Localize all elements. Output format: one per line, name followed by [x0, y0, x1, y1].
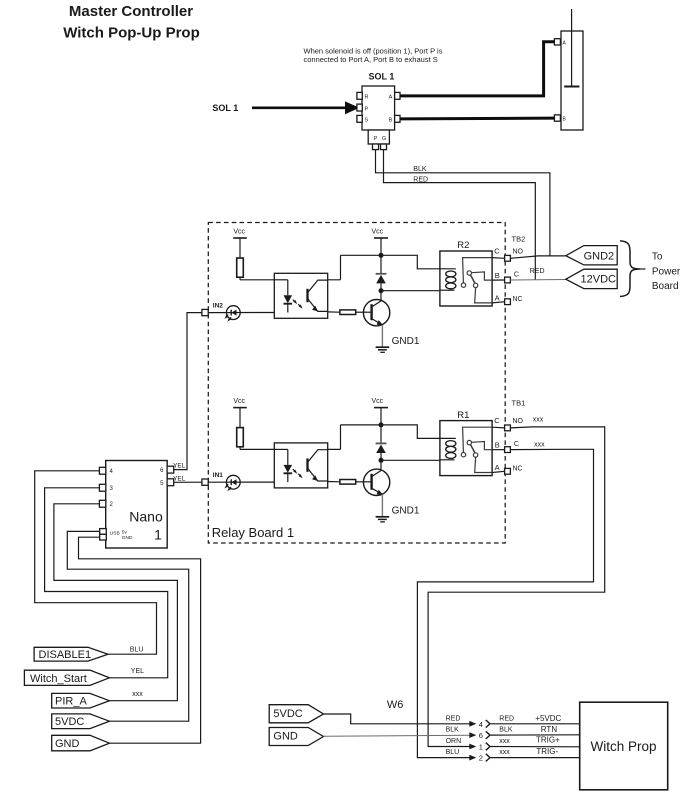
svg-text:5: 5: [160, 481, 164, 487]
svg-text:Relay Board 1: Relay Board 1: [212, 525, 294, 540]
svg-text:5v: 5v: [122, 529, 128, 535]
svg-text:xxx: xxx: [534, 441, 545, 448]
svg-text:W6: W6: [387, 699, 404, 711]
svg-text:GND: GND: [55, 738, 80, 750]
svg-text:YEL: YEL: [131, 668, 144, 675]
svg-text:6: 6: [479, 731, 483, 740]
svg-text:To: To: [652, 252, 663, 263]
svg-text:5VDC: 5VDC: [273, 708, 302, 720]
svg-text:TRIG+: TRIG+: [536, 736, 560, 745]
svg-text:RED: RED: [530, 268, 545, 275]
svg-text:TB1: TB1: [512, 399, 526, 408]
svg-text:When solenoid is off (position: When solenoid is off (position 1), Port …: [304, 46, 443, 55]
svg-text:TB2: TB2: [512, 235, 526, 244]
svg-text:12VDC: 12VDC: [581, 273, 617, 285]
svg-text:SOL 1: SOL 1: [212, 103, 238, 113]
svg-text:Witch Pop-Up Prop: Witch Pop-Up Prop: [63, 25, 200, 42]
svg-text:G: G: [382, 136, 386, 142]
svg-text:R2: R2: [457, 240, 469, 251]
svg-text:Witch Prop: Witch Prop: [590, 739, 656, 754]
svg-text:DISABLE1: DISABLE1: [39, 649, 92, 661]
svg-text:xxx: xxx: [499, 738, 510, 745]
svg-text:ORN: ORN: [446, 738, 462, 745]
svg-text:RED: RED: [413, 176, 428, 183]
svg-text:R1: R1: [457, 410, 469, 421]
svg-text:1: 1: [479, 743, 483, 752]
svg-text:1: 1: [154, 527, 162, 543]
svg-text:PIR_A: PIR_A: [55, 696, 87, 708]
svg-text:IN1: IN1: [213, 472, 224, 479]
svg-text:YEL: YEL: [173, 462, 186, 469]
svg-text:6: 6: [160, 468, 164, 474]
svg-text:Board: Board: [652, 281, 679, 292]
svg-text:B: B: [389, 118, 393, 124]
svg-text:YEL: YEL: [173, 476, 186, 483]
svg-text:xxx: xxx: [132, 691, 143, 698]
svg-text:P: P: [374, 136, 378, 142]
svg-text:xxx: xxx: [533, 417, 544, 424]
svg-text:xxx: xxx: [499, 749, 510, 756]
svg-text:5VDC: 5VDC: [55, 716, 84, 728]
svg-text:IN2: IN2: [213, 303, 224, 310]
svg-text:TRIG-: TRIG-: [536, 747, 558, 756]
svg-text:GND: GND: [122, 535, 133, 541]
svg-text:4: 4: [479, 720, 483, 729]
svg-text:Witch_Start: Witch_Start: [30, 673, 87, 685]
svg-text:+5VDC: +5VDC: [535, 714, 561, 723]
svg-text:BLU: BLU: [130, 647, 144, 654]
svg-text:GND: GND: [273, 731, 298, 743]
svg-text:S: S: [365, 118, 369, 124]
svg-text:3: 3: [110, 486, 114, 492]
svg-text:RTN: RTN: [541, 725, 558, 734]
svg-text:Master Controller: Master Controller: [69, 3, 193, 20]
svg-text:A: A: [389, 95, 393, 101]
svg-text:BLK: BLK: [499, 727, 513, 734]
svg-text:2: 2: [110, 502, 114, 508]
svg-text:BLU: BLU: [446, 749, 460, 756]
svg-text:connected to Port A, Port B to: connected to Port A, Port B to exhaust S: [304, 55, 438, 64]
svg-text:USB: USB: [110, 531, 120, 537]
svg-text:RED: RED: [499, 715, 514, 722]
svg-text:SOL 1: SOL 1: [369, 72, 395, 82]
svg-text:RED: RED: [446, 715, 461, 722]
svg-text:P: P: [365, 106, 369, 112]
svg-text:Power: Power: [652, 266, 681, 277]
svg-text:4: 4: [110, 469, 114, 475]
svg-text:GND2: GND2: [584, 251, 615, 263]
svg-text:Nano: Nano: [129, 509, 163, 525]
svg-text:R: R: [365, 95, 369, 101]
svg-text:BLK: BLK: [446, 727, 460, 734]
svg-text:BLK: BLK: [413, 166, 427, 173]
svg-text:2: 2: [479, 754, 483, 763]
